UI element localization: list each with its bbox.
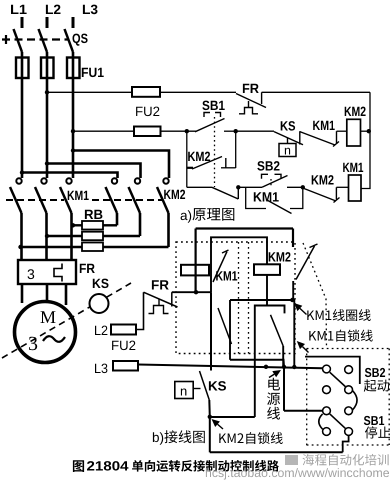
wire rung2 xyxy=(187,186,212,188)
caption title xyxy=(132,460,279,472)
contact KM2 NC right terminal xyxy=(335,187,337,199)
wire FR to motor 2 xyxy=(46,284,49,301)
node KM2 selflock xyxy=(208,415,212,419)
contact KM2 selflock left tick xyxy=(187,167,193,169)
fuse FU2 label xyxy=(136,107,159,117)
resistor RB row1 wire xyxy=(73,224,82,226)
caption figure number xyxy=(73,460,84,472)
wire KM1 pole1 down xyxy=(20,213,23,259)
button terminal r3R xyxy=(345,407,353,415)
coil KM2 label xyxy=(345,107,366,116)
contactor KM2 pole3 terminal xyxy=(163,178,168,183)
wire power down from W2 xyxy=(283,367,285,411)
button SB2 bridge xyxy=(330,372,346,386)
coil KM2 b xyxy=(254,264,280,275)
contact KM2 b label xyxy=(269,252,291,261)
fuse FU2 upper xyxy=(132,87,160,97)
node KM1 coil wire xyxy=(290,298,294,302)
contact KM1 NC a label xyxy=(313,121,335,130)
node L3 control tap xyxy=(71,129,75,133)
pushbutton SB2 NO blade xyxy=(262,176,288,188)
pushbutton SB2 cap xyxy=(262,174,269,178)
contactor KM2 pole2 blade xyxy=(129,187,141,213)
fuse FU1 pole 1 xyxy=(16,58,29,79)
wire bottom return horizontal xyxy=(210,451,343,453)
contactor KM1 pole3 blade xyxy=(60,187,72,213)
resistor RB row2 wire xyxy=(47,235,82,237)
contactor KM2 pole3 blade xyxy=(157,187,169,213)
button terminal r2R xyxy=(345,386,353,394)
wire hook to W2 xyxy=(230,360,284,367)
button terminal r3L xyxy=(323,407,331,415)
wire KM2 selflock horizontal xyxy=(210,416,255,418)
wire KM2 coil to rail xyxy=(361,130,371,132)
wire module lower top xyxy=(230,299,295,301)
fuse FU1 pole 2 xyxy=(41,58,54,79)
wire L3 supply stub xyxy=(72,17,75,28)
wire W2 to buttons xyxy=(138,365,323,369)
switch QS label xyxy=(73,34,88,46)
button terminal r2L xyxy=(323,386,331,394)
resistor RB row3 xyxy=(82,243,103,252)
wire bottom return down xyxy=(209,417,211,453)
contact lower KM2 blade xyxy=(271,315,284,346)
contactor KM1 pole2 terminal xyxy=(41,178,46,183)
wire L3 tap to FU2b xyxy=(73,130,134,132)
node W2 power xyxy=(264,365,268,369)
contact KM2 b right blade xyxy=(296,246,315,280)
contact KM2 NC label xyxy=(312,175,334,184)
wire FU2b to node A xyxy=(161,130,197,132)
wire L1 vertical xyxy=(21,52,24,178)
contact KM1 b tick xyxy=(222,250,229,253)
resistor RB label xyxy=(85,210,103,219)
thermal relay FR count 3 xyxy=(28,269,35,279)
contactor KM1 linkage dashed xyxy=(6,199,64,201)
fuse FU1 pole 3 xyxy=(67,58,80,79)
wire b loop right upper xyxy=(292,229,294,248)
contactor KM2 pole1 blade xyxy=(106,187,118,213)
node L2 label xyxy=(46,5,61,14)
wire KM1 pole3 down xyxy=(70,213,73,259)
wire L2 vertical xyxy=(46,52,49,178)
disconnect switch QS linkage dashed xyxy=(2,38,69,40)
wire KM2 blade to W2 xyxy=(282,346,284,367)
speed sensor KS label xyxy=(93,279,109,289)
motor letter M xyxy=(41,311,56,323)
wire KM2b coil down xyxy=(266,275,268,306)
contactor KM2 linkage dashed xyxy=(92,199,163,201)
wire node A down xyxy=(186,131,188,187)
label SB2 xyxy=(365,368,385,377)
contactor KM1 pole3 terminal xyxy=(66,178,71,183)
coil KM1 label xyxy=(343,163,363,172)
coil KM1 xyxy=(349,175,362,201)
label qidong start xyxy=(364,379,389,391)
watermark brand xyxy=(303,454,389,466)
node W2 selflock xyxy=(292,365,296,369)
wire KS b down xyxy=(208,400,211,417)
pushbutton SB1 NC blade xyxy=(195,119,225,132)
node W2 hook xyxy=(282,365,286,369)
button terminal r4R xyxy=(345,428,353,436)
wire KM2b contact down xyxy=(292,281,294,300)
switch QS pole 2 blade xyxy=(39,29,48,52)
thermal contact FR b blade xyxy=(144,292,178,307)
contactor KM1 label xyxy=(68,191,89,200)
button arc right xyxy=(353,391,357,410)
node L3 label xyxy=(83,5,98,15)
motor 3 phase text xyxy=(29,337,37,350)
contactor KM1 pole1 terminal xyxy=(16,178,21,183)
wire L3 to KM2 pole3 xyxy=(73,151,169,179)
node L2 control tap xyxy=(45,90,49,94)
wire KM1 coil to rail xyxy=(361,92,370,188)
thermal contact FR b symbol xyxy=(158,300,160,306)
speed contact KS b label xyxy=(209,381,226,391)
contact KM2 b right tick xyxy=(310,244,318,248)
contact KM2 NC blade xyxy=(304,189,336,202)
contactor KM2 pole1 terminal xyxy=(112,178,117,183)
wire node B down xyxy=(235,131,237,168)
module lower KM2 outline xyxy=(255,306,285,418)
panel dashed box xyxy=(176,242,295,354)
pushbutton SB1 NO blade xyxy=(212,187,238,199)
wire to KM2 coil xyxy=(337,130,347,132)
node L1 to KM2 tap xyxy=(20,170,24,174)
resistor RB row1 xyxy=(82,221,103,230)
label b) wiring diagram xyxy=(153,432,163,445)
contact KM1 NC a nose xyxy=(333,142,339,147)
speed sensor KS circle xyxy=(90,294,109,313)
watermark logo xyxy=(285,455,298,465)
thermal relay FR label xyxy=(80,264,95,273)
wire node B to KS xyxy=(236,130,274,132)
contact KM1 b label xyxy=(216,271,237,280)
wire KM2 pole1 down xyxy=(116,213,119,225)
pushbutton SB1 NO right terminal xyxy=(237,187,239,199)
speed box n b xyxy=(175,382,193,399)
wire FRb to panel xyxy=(172,291,211,293)
contact KM1 selflock blade xyxy=(266,200,292,214)
coil KM2 xyxy=(347,119,361,146)
module lower KM1 left xyxy=(229,300,231,360)
wire to SB2 xyxy=(238,186,262,188)
wire L1 supply stub xyxy=(21,17,24,28)
coil KM1 b xyxy=(181,265,209,276)
switch QS pole 3 blade xyxy=(65,29,74,52)
button terminal r1R xyxy=(345,366,353,374)
contact KM2 selflock wire xyxy=(221,167,236,169)
pushbutton SB1 label xyxy=(202,101,224,111)
button arc left xyxy=(319,414,323,429)
switch QS handle serif xyxy=(5,35,7,44)
fuse FU2 lower xyxy=(134,127,161,137)
fuse FU1 label xyxy=(82,68,104,77)
node B xyxy=(234,129,238,133)
node KM2 coil rail xyxy=(367,129,371,133)
fuse FU2 b label xyxy=(112,341,135,351)
wire KM2 pole3 down xyxy=(167,213,170,247)
contact KM1 selflock left wire xyxy=(246,187,266,208)
thermal relay FR heater glyph xyxy=(54,264,62,282)
thermal contact FR a label xyxy=(243,84,259,93)
label L3 b xyxy=(95,364,107,374)
blowup dotted diagonal xyxy=(303,243,327,349)
node RB row1 xyxy=(71,223,75,227)
wire L2b to FRb xyxy=(136,292,144,329)
button station solid outline xyxy=(305,357,360,384)
fuse FU2 b lower xyxy=(113,361,138,371)
label tingzhi stop xyxy=(365,426,390,438)
contact KS label xyxy=(281,121,295,131)
speed box tick xyxy=(193,388,200,390)
contact KM1 NC a right terminal xyxy=(336,131,338,144)
node RB row2 xyxy=(45,234,49,238)
node A xyxy=(185,129,189,133)
wire power to SB1 row xyxy=(284,410,323,412)
wire b loop top xyxy=(196,227,293,229)
wire KM1 module down to KS xyxy=(210,292,212,370)
motor shaft dashed line xyxy=(2,283,131,358)
pushbutton SB2 label xyxy=(257,161,279,171)
resistor RB row3 wire xyxy=(21,246,83,248)
wire FR to motor 1 xyxy=(21,284,24,303)
contact KM2 selflock right tick xyxy=(225,158,227,168)
pushbutton SB1 cap xyxy=(204,113,210,118)
label KM1 coil wire xyxy=(300,308,307,314)
node L3 to KM2 tap xyxy=(71,148,75,152)
label a) schematic xyxy=(181,210,192,223)
wire SB1 to node B xyxy=(224,130,236,132)
wire KM1 pole2 down xyxy=(45,213,48,259)
motor M circle xyxy=(15,302,76,363)
node L1 label xyxy=(11,5,27,14)
wire KM2 pole2 down xyxy=(139,213,142,236)
wire b loop left xyxy=(195,229,197,293)
thermal contact FR b right terminal xyxy=(171,292,173,306)
button station dotted box xyxy=(306,349,308,449)
thermal contact FR a right terminal xyxy=(261,92,263,104)
button terminal r1L xyxy=(323,365,331,373)
label SB1 xyxy=(364,416,384,425)
contact KS tick xyxy=(287,138,289,144)
node RB row3 xyxy=(18,245,22,249)
wire FR to motor 3 xyxy=(65,284,68,305)
wire L1 to KM2 pole1 xyxy=(22,173,118,179)
label KM2 selflock wire xyxy=(218,424,223,429)
wire KM1 selflock down xyxy=(293,300,295,367)
panel inner dashed divider 1 xyxy=(238,242,240,354)
wire L2 supply stub xyxy=(46,17,49,28)
switch QS pole 1 blade xyxy=(14,29,23,52)
thermal contact FR a symbol xyxy=(248,101,250,108)
pushbutton SB1 linkage dotted xyxy=(214,117,216,187)
contact KM2 selflock label xyxy=(188,152,210,161)
label power wire xyxy=(269,374,274,377)
watermark url xyxy=(206,468,389,480)
node KM1 coil bottom xyxy=(194,290,198,294)
contactor KM1 pole1 blade xyxy=(10,187,22,213)
contact KM1 selflock right wire xyxy=(290,187,303,208)
contact KS right terminal xyxy=(299,131,301,144)
contact KM1 selflock label xyxy=(254,192,279,201)
wire button bottom xyxy=(343,436,349,453)
wire SB2 to KM2NC xyxy=(287,186,304,188)
label L2 b xyxy=(95,326,107,335)
contactor KM1 pole2 blade xyxy=(35,187,47,213)
label KM1 selflock wire xyxy=(303,347,309,353)
contact KM1 b blade xyxy=(213,252,227,283)
module KM1 b outline xyxy=(211,237,267,292)
resistor RB row2 xyxy=(82,232,103,241)
node selflock right xyxy=(301,185,305,189)
thermal relay FR box xyxy=(18,260,76,284)
contact KM2 selflock blade xyxy=(192,157,222,170)
node SB1NO out xyxy=(236,185,240,189)
panel inner dashed divider 2 xyxy=(248,242,250,354)
wire L2 tap to FU2a xyxy=(47,91,132,93)
contact lower KM1 blade xyxy=(218,308,232,344)
pushbutton SB2 linkage dotted xyxy=(270,179,272,186)
speed contact KS b blade xyxy=(200,371,210,400)
contact KM1 NC a blade xyxy=(300,132,335,145)
wire FU2a to FR contact xyxy=(160,91,236,93)
node L2 to KM2 tap xyxy=(45,161,49,165)
thermal contact FR a blade xyxy=(236,94,266,108)
contactor KM2 label xyxy=(164,190,185,199)
wire L2 to KM2 pole2 xyxy=(47,164,141,179)
wire L3 vertical xyxy=(72,52,75,178)
button SB1 bridge xyxy=(330,414,346,429)
contact KS blade xyxy=(274,132,303,145)
button terminal r4L xyxy=(323,428,331,436)
contactor KM2 pole2 terminal xyxy=(135,178,140,183)
contact KM2 NC nose xyxy=(334,198,340,203)
speed box n xyxy=(279,144,296,157)
wire to KM1 coil xyxy=(336,186,348,188)
wire FR a to right rail xyxy=(262,91,370,93)
thermal contact FR b label xyxy=(152,280,169,289)
fuse FU2 b upper xyxy=(111,325,136,335)
